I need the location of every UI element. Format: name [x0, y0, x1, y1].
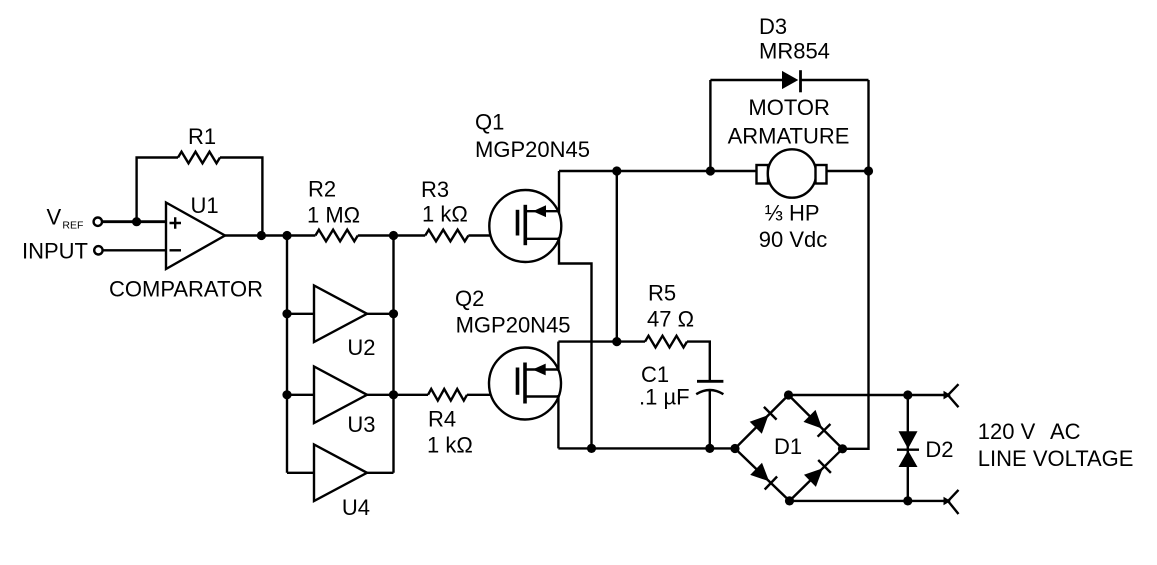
plus input marker	[170, 217, 182, 229]
svg-text:U4: U4	[342, 495, 370, 520]
node U2 output	[389, 309, 398, 318]
svg-text:U2: U2	[347, 335, 375, 360]
node snubber tap	[612, 166, 621, 175]
resistor R4	[428, 389, 467, 401]
wire Q2 emitter drop	[557, 395, 559, 448]
AC terminal hot	[944, 384, 959, 407]
transistor Q2	[489, 348, 561, 420]
svg-text:C1: C1	[641, 362, 669, 387]
capacitor C1	[696, 381, 723, 394]
wire Q1 emitter to bottom bus	[559, 237, 592, 448]
wire D3 anode	[710, 79, 782, 81]
svg-text:D1: D1	[774, 434, 802, 459]
wire right bus down to bridge	[843, 80, 869, 449]
node buffer chain top	[282, 231, 291, 240]
svg-text:U3: U3	[347, 412, 375, 437]
svg-text:MR854: MR854	[759, 39, 830, 64]
node feedback junction	[257, 231, 266, 240]
wire op-amp output to R2	[225, 234, 315, 236]
terminal INPUT	[94, 246, 102, 254]
wire U3 input	[287, 394, 314, 396]
node VREF / R1 feedback junction	[132, 217, 141, 226]
node bridge top	[784, 390, 793, 399]
wire R1 feedback right	[220, 158, 262, 236]
svg-text:1 kΩ: 1 kΩ	[422, 201, 468, 226]
wire VREF to noninverting input	[102, 220, 166, 223]
svg-text:Q1: Q1	[475, 110, 504, 135]
svg-text:.1 µF: .1 µF	[639, 385, 690, 410]
wire U4 input	[287, 472, 314, 474]
svg-text:R2: R2	[308, 176, 336, 201]
svg-text:⅓ HP: ⅓ HP	[765, 201, 820, 226]
wire R5 to C1	[687, 342, 710, 382]
terminal VREF	[94, 218, 102, 226]
svg-text:Q2: Q2	[455, 286, 484, 311]
wire D3 left riser	[709, 80, 711, 171]
svg-text:MOTOR: MOTOR	[748, 95, 829, 120]
resistor R1	[178, 152, 220, 164]
svg-text:LINE VOLTAGE: LINE VOLTAGE	[978, 446, 1134, 471]
resistor R2	[315, 230, 357, 242]
svg-text:AC: AC	[1050, 419, 1081, 444]
wire R4 to Q2 gate	[467, 394, 518, 396]
node U2 input	[282, 309, 291, 318]
svg-text:120 V: 120 V	[978, 419, 1036, 444]
node U3 output	[389, 390, 398, 399]
node D2 bottom	[903, 496, 912, 505]
wire buffer output bus	[392, 236, 394, 473]
wire bridge top to AC hot	[789, 394, 947, 396]
node D3 anode tap	[706, 166, 715, 175]
buffer U4	[314, 445, 367, 502]
wire U2 input	[287, 313, 314, 315]
svg-text:D2: D2	[925, 437, 953, 462]
minus input marker	[170, 249, 182, 251]
resistor R3	[425, 230, 468, 242]
D3 cathode bar	[799, 70, 802, 92]
wire C1 to bottom bus	[709, 391, 711, 449]
diode D3	[782, 71, 798, 89]
node C1 / bottom bus	[705, 444, 714, 453]
svg-text:INPUT: INPUT	[22, 239, 88, 264]
wire D3 cathode	[801, 79, 869, 81]
node bridge left	[730, 444, 739, 453]
wire Q1 collector riser	[558, 171, 560, 213]
svg-text:R4: R4	[428, 406, 456, 431]
resistor R5	[645, 336, 687, 348]
node bridge right	[838, 444, 847, 453]
wire buffer input bus	[286, 236, 288, 473]
svg-text:D3: D3	[759, 14, 787, 39]
svg-text:ARMATURE: ARMATURE	[728, 123, 850, 148]
svg-text:1 kΩ: 1 kΩ	[427, 433, 473, 458]
motor armature	[757, 149, 869, 197]
wire U2 output	[367, 313, 394, 315]
wire collector top bus	[559, 170, 757, 172]
svg-text:1 MΩ: 1 MΩ	[307, 202, 360, 227]
node D2 top	[903, 390, 912, 399]
wire bridge bottom to AC neutral	[790, 500, 947, 502]
svg-text:47 Ω: 47 Ω	[647, 306, 694, 331]
wire Q2 collector riser	[557, 342, 559, 371]
svg-text:U1: U1	[191, 193, 219, 218]
node R2 / R3 / buffer output junction	[389, 231, 398, 240]
svg-text:COMPARATOR: COMPARATOR	[109, 277, 263, 302]
node Q2 collector / R5	[612, 337, 621, 346]
node motor right	[864, 166, 873, 175]
wire bottom bus	[558, 447, 735, 449]
wire U3 output to R4	[367, 394, 428, 396]
node Q1 emitter / bottom bus	[587, 444, 596, 453]
node U3 input	[282, 390, 291, 399]
op-amp U1	[166, 203, 225, 270]
wire snubber tap riser	[616, 171, 618, 342]
buffer U2	[314, 286, 367, 343]
svg-text:MGP20N45: MGP20N45	[456, 313, 571, 338]
wire INPUT to inverting input	[103, 249, 166, 251]
svg-text:R3: R3	[421, 177, 449, 202]
buffer U3	[314, 367, 367, 424]
wire R3 to Q1 gate	[468, 234, 517, 236]
wire U4 output	[367, 472, 394, 474]
svg-text:R5: R5	[648, 281, 676, 306]
wire R2 to R3	[358, 234, 425, 236]
bridge rectifier D1	[735, 395, 843, 501]
wire snubber bus	[558, 340, 645, 342]
svg-text:MGP20N45: MGP20N45	[475, 137, 590, 162]
AC terminal neutral	[944, 490, 959, 514]
suppressor D2	[897, 395, 919, 501]
wire R1 feedback left	[137, 158, 178, 222]
node bridge bottom	[785, 496, 794, 505]
transistor Q1	[489, 190, 561, 262]
svg-text:90 Vdc: 90 Vdc	[759, 227, 828, 252]
svg-text:R1: R1	[188, 124, 216, 149]
